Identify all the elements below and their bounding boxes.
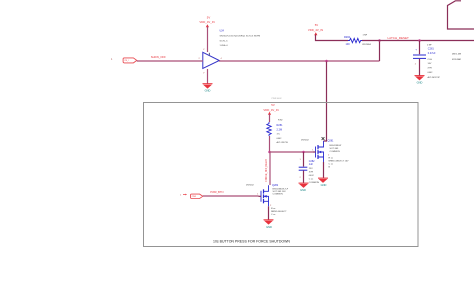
svg-text:VDD_4V_IN: VDD_4V_IN <box>308 28 323 32</box>
svg-text:U24: U24 <box>220 30 225 33</box>
ground below C281 <box>415 76 425 85</box>
wire port to op-amp input <box>137 60 203 62</box>
box FORCE SHUTDOWN <box>144 103 419 247</box>
svg-text:GND: GND <box>266 225 272 229</box>
wire op-amp output <box>219 60 380 62</box>
svg-text:2N7002: 2N7002 <box>246 184 254 186</box>
svg-text:5V: 5V <box>271 103 275 107</box>
svg-text:1%: 1% <box>277 134 280 136</box>
wire port to Q282 gate <box>203 195 259 197</box>
wire Q282 source to GND <box>268 206 270 220</box>
svg-text:1 NF: 1 NF <box>363 35 368 37</box>
svg-text:PWR 0402: PWR 0402 <box>272 98 283 100</box>
svg-text:GND: GND <box>417 80 423 84</box>
svg-text:5V: 5V <box>315 23 319 27</box>
svg-text:Q281: Q281 <box>328 140 335 143</box>
capacitor C281 <box>413 48 426 58</box>
ground below Q281 <box>318 178 328 187</box>
svg-text:NRND-SELECT: NRND-SELECT <box>271 211 287 213</box>
svg-text:SOT-363: SOT-363 <box>330 148 340 150</box>
Q281 labels <box>301 139 342 153</box>
svg-text:C281: C281 <box>428 47 435 50</box>
svg-text:COMMON: COMMON <box>330 151 341 153</box>
svg-text:COMMON: COMMON <box>273 194 284 196</box>
wire VDD to U24 V+ <box>207 27 209 53</box>
resistor R284 <box>348 38 362 42</box>
svg-text:NRND-SELECT 16V: NRND-SELECT 16V <box>329 161 350 163</box>
R284 labels <box>344 35 372 47</box>
U24 VCC pin tick <box>208 53 210 55</box>
svg-text:0402: 0402 <box>309 175 315 177</box>
svg-text:VDD_4V_IN: VDD_4V_IN <box>199 20 214 24</box>
svg-text:1uF: 1uF <box>309 163 314 166</box>
svg-text:COMMON: COMMON <box>309 182 320 184</box>
svg-text:BSS138DW: BSS138DW <box>330 145 343 147</box>
svg-text:FORCE_OFF_DELAY: FORCE_OFF_DELAY <box>265 158 268 181</box>
U24 refdes and part text <box>220 30 261 48</box>
junction at resistor out <box>378 39 381 42</box>
svg-text:0402: 0402 <box>428 72 434 74</box>
svg-text:R281: R281 <box>277 124 284 127</box>
capacitor C282 <box>299 167 308 170</box>
svg-text:100: 100 <box>346 43 351 46</box>
ground below U24 <box>203 84 213 93</box>
svg-text:CRCW04: CRCW04 <box>362 44 372 46</box>
wire R281 to junction <box>269 136 271 152</box>
power flag VDD_4V_IN (over U24) <box>199 16 214 28</box>
junction at C281 <box>418 39 421 42</box>
power flag VDD_4V_IN (top right) <box>308 23 323 35</box>
svg-text:0402: 0402 <box>277 138 283 140</box>
junction at C282 <box>302 151 305 154</box>
svg-text:1 NF: 1 NF <box>427 45 432 47</box>
svg-text:2N7002: 2N7002 <box>301 139 309 141</box>
Q281 source notes <box>328 154 349 168</box>
svg-text:SC70_5: SC70_5 <box>220 40 229 42</box>
ground below C282 <box>299 183 309 192</box>
port PWR_BTN (tag) <box>180 194 203 199</box>
R281 labels <box>277 119 289 144</box>
transistor Q281 <box>313 141 324 162</box>
resistor R281 <box>267 122 271 136</box>
svg-text:GND: GND <box>321 183 327 187</box>
svg-text:25V: 25V <box>309 168 313 170</box>
svg-text:0705 MM: 0705 MM <box>452 59 461 61</box>
svg-text:VDD_4V_IN: VDD_4V_IN <box>263 108 278 112</box>
wire junction to Q281 gate <box>270 151 314 153</box>
svg-text:ALT-NOPOP: ALT-NOPOP <box>428 76 441 79</box>
C282 labels <box>309 160 320 184</box>
svg-text:16V: 16V <box>428 63 432 65</box>
C281 labels <box>427 45 440 79</box>
wire C282 to GND <box>303 171 305 184</box>
wire junction down to Q282 drain <box>269 152 271 185</box>
wire net down into box (to Q281 drain) <box>324 62 327 142</box>
ground below Q282 <box>264 220 274 229</box>
svg-text:SN74LVC1G17QDCKRQ1 SC70-5 NOPB: SN74LVC1G17QDCKRQ1 SC70-5 NOPB <box>220 36 261 38</box>
port PB_IN (left input tag) <box>111 58 137 63</box>
svg-text:PWR_BTN: PWR_BTN <box>210 190 223 194</box>
svg-text:DNI 1.5W: DNI 1.5W <box>452 53 461 55</box>
svg-text:2.2M: 2.2M <box>277 128 283 131</box>
svg-text:1.65E+0: 1.65E+0 <box>220 45 229 47</box>
svg-text:ALT-CRCW: ALT-CRCW <box>277 141 289 144</box>
wire Q281 source to GND <box>323 162 325 178</box>
svg-text:X7R: X7R <box>309 172 314 174</box>
transistor Q282 <box>259 185 269 206</box>
svg-text:SHDN_OFF: SHDN_OFF <box>151 55 166 59</box>
wire junction to C282 <box>303 152 305 167</box>
wire flag to R281 <box>269 114 271 122</box>
junction op-amp output <box>325 60 328 63</box>
svg-text:R284: R284 <box>344 36 351 39</box>
wire to C281 <box>419 41 421 55</box>
svg-text:GND: GND <box>205 88 211 92</box>
svg-text:GND: GND <box>300 188 306 192</box>
svg-text:PWR: PWR <box>192 196 197 198</box>
svg-text:Q282: Q282 <box>272 184 279 187</box>
svg-text:0.47uF: 0.47uF <box>428 52 436 55</box>
svg-text:C0G: C0G <box>428 59 433 61</box>
junction node FORCE_OFF_DELAY <box>268 151 271 154</box>
svg-text:10s BUTTON PRESS FOR FORCE SHU: 10s BUTTON PRESS FOR FORCE SHUTDOWN <box>213 239 290 243</box>
svg-text:PB_I: PB_I <box>125 60 129 62</box>
Q282 source notes <box>270 205 287 216</box>
Q282 labels <box>246 184 289 195</box>
power flag VDD_4V_IN (in box) <box>263 103 278 115</box>
wire C281 to GND <box>419 59 421 76</box>
svg-text:X7R: X7R <box>428 68 433 70</box>
no-connect X on Q281 drain <box>322 137 325 140</box>
wire LATCH_RESET net <box>362 40 474 42</box>
svg-text:5V: 5V <box>207 16 211 20</box>
C281 side notes <box>452 53 461 61</box>
sheet connector top right <box>448 1 474 29</box>
svg-text:LATCH_RESET: LATCH_RESET <box>388 36 409 40</box>
wire feedback up to LATCH_RESET <box>379 41 381 62</box>
wire flag down to net <box>316 35 349 41</box>
wire U24 to GND <box>207 69 209 84</box>
op-amp U1 buffer triangle <box>203 52 220 68</box>
